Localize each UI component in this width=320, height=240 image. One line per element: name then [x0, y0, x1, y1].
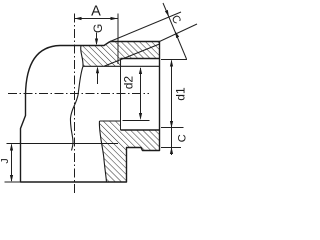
svg-text:C: C: [169, 13, 183, 26]
svg-text:G: G: [91, 24, 105, 33]
svg-text:A: A: [91, 4, 101, 20]
svg-text:J: J: [0, 158, 11, 163]
svg-text:d1: d1: [174, 87, 188, 101]
svg-text:d2: d2: [122, 76, 136, 90]
svg-text:C: C: [177, 134, 189, 142]
